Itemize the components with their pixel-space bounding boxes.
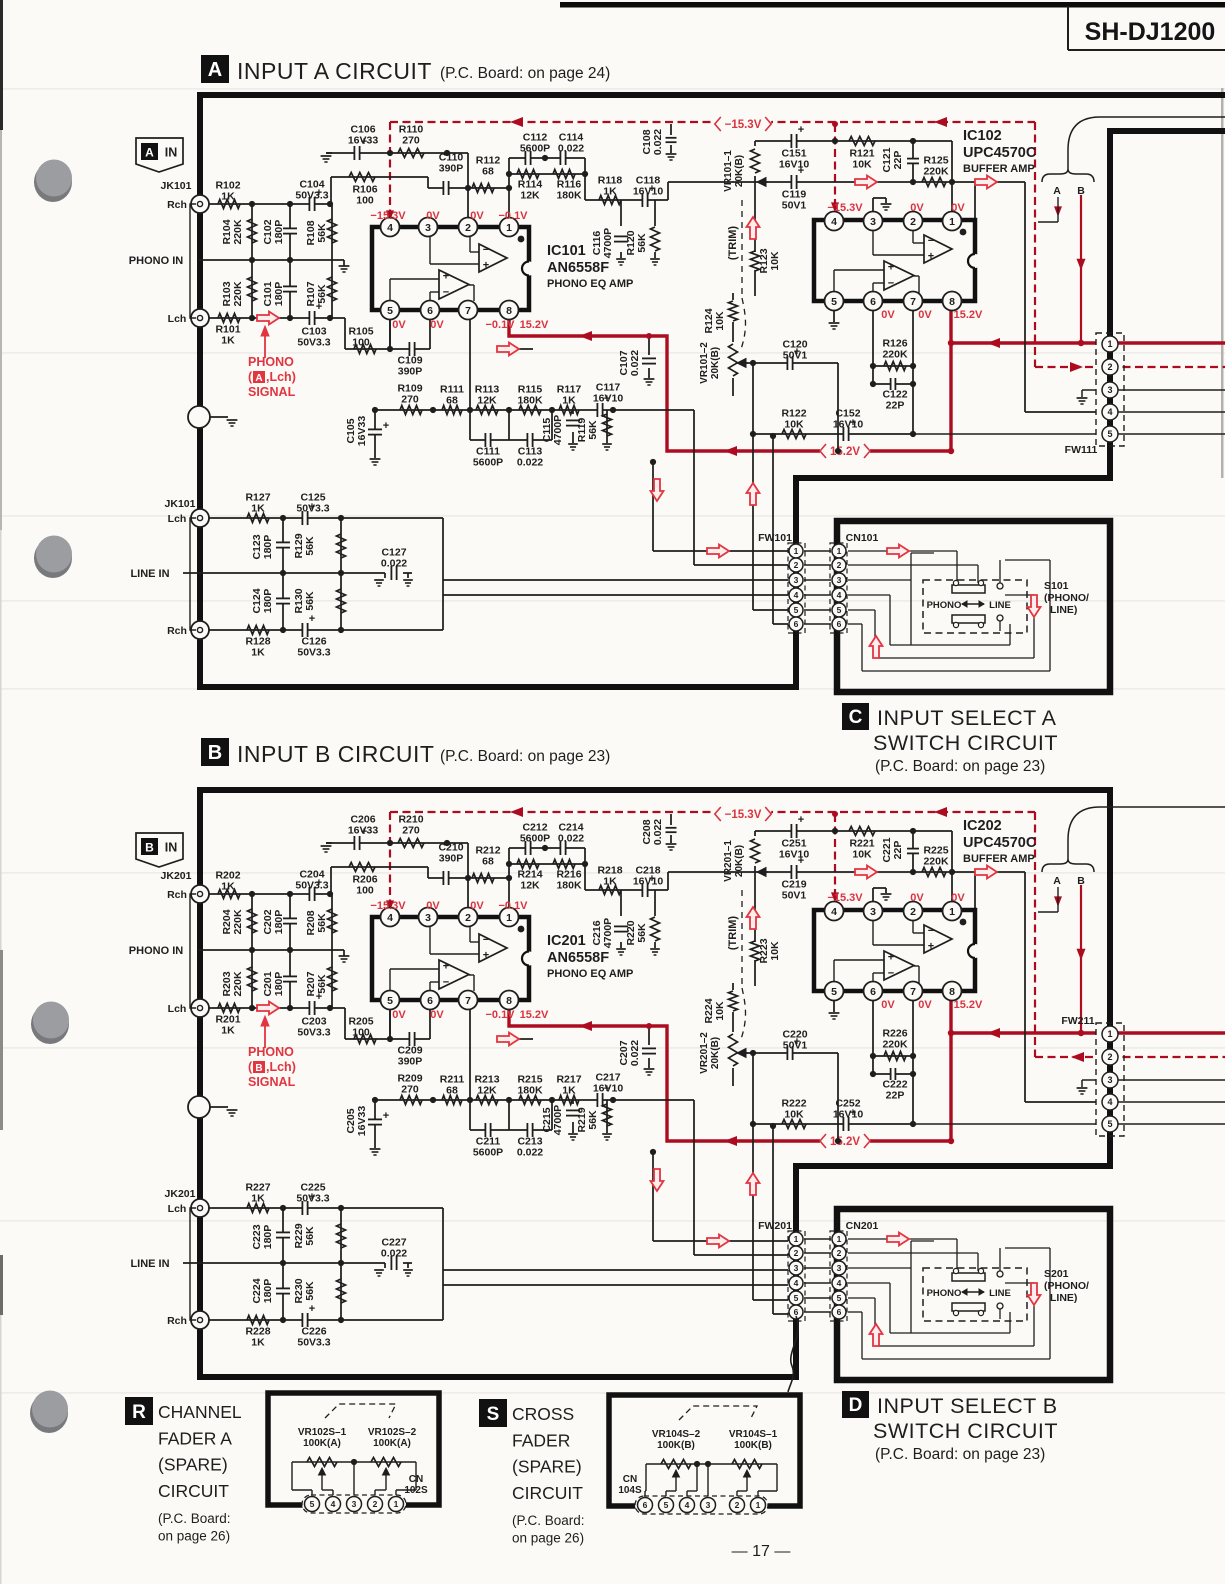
svg-text:VR201–2: VR201–2: [699, 1032, 710, 1074]
svg-text:6: 6: [794, 619, 799, 629]
svg-text:390P: 390P: [398, 366, 423, 378]
svg-text:IC102: IC102: [963, 128, 1002, 144]
svg-text:10K: 10K: [784, 419, 804, 431]
svg-text:102S: 102S: [404, 1485, 428, 1496]
svg-text:VR104S–1: VR104S–1: [729, 1429, 778, 1440]
svg-text:FW211: FW211: [1061, 1015, 1094, 1027]
svg-text:56K: 56K: [304, 1226, 316, 1246]
svg-text:2: 2: [910, 216, 916, 228]
svg-text:68: 68: [482, 166, 494, 178]
svg-text:— 17 —: — 17 —: [732, 1543, 791, 1560]
svg-text:Lch: Lch: [168, 513, 187, 525]
svg-text:4: 4: [794, 590, 799, 600]
svg-text:1K: 1K: [251, 1337, 265, 1349]
svg-text:220K: 220K: [923, 166, 949, 178]
svg-text:LINE): LINE): [1050, 604, 1077, 616]
svg-text:7: 7: [910, 986, 916, 998]
svg-text:16V10: 16V10: [779, 849, 810, 861]
svg-text:−: −: [443, 287, 449, 299]
svg-text:−: −: [888, 278, 894, 290]
svg-text:1: 1: [794, 546, 799, 556]
svg-text:5: 5: [794, 605, 799, 615]
svg-text:SIGNAL: SIGNAL: [248, 385, 296, 399]
svg-text:4: 4: [685, 1500, 690, 1510]
svg-text:+: +: [928, 251, 934, 263]
svg-text:5: 5: [387, 995, 393, 1007]
svg-text:LINE): LINE): [1050, 1292, 1077, 1304]
svg-text:2: 2: [910, 906, 916, 918]
svg-text:CIRCUIT: CIRCUIT: [158, 1481, 229, 1501]
svg-text:5: 5: [837, 1293, 842, 1303]
svg-text:16V10: 16V10: [593, 393, 624, 405]
svg-text:390P: 390P: [439, 853, 464, 865]
svg-text:VR102S–2: VR102S–2: [368, 1427, 417, 1438]
svg-text:2: 2: [465, 222, 471, 234]
svg-text:56K: 56K: [316, 974, 328, 994]
svg-text:6: 6: [870, 296, 876, 308]
svg-text:270: 270: [401, 394, 419, 406]
svg-text:6: 6: [794, 1307, 799, 1317]
svg-text:VR101–1: VR101–1: [723, 150, 734, 192]
svg-text:VR101–2: VR101–2: [699, 342, 710, 384]
svg-text:−15.3V: −15.3V: [725, 119, 762, 131]
svg-text:15.2V: 15.2V: [520, 1009, 549, 1021]
svg-text:1K: 1K: [221, 191, 235, 203]
svg-text:−15.3V: −15.3V: [827, 892, 863, 904]
svg-text:0.022: 0.022: [517, 1147, 543, 1159]
svg-text:6: 6: [643, 1500, 648, 1510]
svg-text:1: 1: [506, 222, 512, 234]
svg-text:CHANNEL: CHANNEL: [158, 1402, 242, 1422]
svg-text:1: 1: [1107, 1029, 1112, 1039]
svg-text:IN: IN: [165, 841, 178, 855]
svg-text:FW201: FW201: [758, 1220, 792, 1232]
svg-text:50V3.3: 50V3.3: [296, 503, 329, 515]
svg-text:270: 270: [401, 1084, 419, 1096]
svg-text:0V: 0V: [470, 900, 484, 912]
svg-text:22P: 22P: [892, 841, 904, 860]
svg-text:8: 8: [949, 296, 955, 308]
svg-text:4: 4: [1107, 407, 1112, 417]
svg-text:S: S: [487, 1404, 500, 1425]
svg-text:50V3.3: 50V3.3: [297, 1337, 330, 1349]
svg-text:−15.3V: −15.3V: [370, 210, 406, 222]
svg-text:1: 1: [949, 906, 955, 918]
svg-text:0V: 0V: [910, 202, 924, 214]
svg-text:FADER A: FADER A: [158, 1428, 232, 1448]
svg-text:50V3.3: 50V3.3: [295, 190, 328, 202]
svg-text:16V33: 16V33: [348, 825, 379, 837]
svg-text:10K: 10K: [714, 1001, 726, 1021]
svg-text:4: 4: [831, 216, 837, 228]
svg-text:16V10: 16V10: [833, 1109, 864, 1121]
svg-text:4: 4: [831, 906, 837, 918]
svg-text:0.022: 0.022: [517, 457, 543, 469]
svg-text:3: 3: [837, 1263, 842, 1273]
svg-text:+: +: [483, 950, 489, 962]
svg-text:PHONO IN: PHONO IN: [129, 945, 183, 957]
svg-text:2: 2: [837, 1248, 842, 1258]
svg-text:6: 6: [837, 619, 842, 629]
svg-text:5600P: 5600P: [520, 833, 550, 845]
svg-text:FADER: FADER: [512, 1430, 570, 1450]
svg-text:220K: 220K: [923, 856, 949, 868]
svg-text:Lch: Lch: [168, 1203, 187, 1215]
svg-text:(P.C. Board: on page 23): (P.C. Board: on page 23): [440, 748, 610, 765]
svg-text:50V1: 50V1: [783, 1040, 808, 1052]
svg-text:5: 5: [837, 605, 842, 615]
svg-text:4700P: 4700P: [602, 228, 614, 258]
svg-text:A: A: [255, 373, 262, 384]
svg-text:50V1: 50V1: [783, 350, 808, 362]
svg-text:R: R: [132, 1402, 146, 1423]
svg-text:180P: 180P: [262, 1225, 274, 1250]
svg-text:100K(B): 100K(B): [657, 1440, 695, 1451]
svg-text:22P: 22P: [886, 1090, 905, 1102]
svg-text:VR201–1: VR201–1: [723, 840, 734, 882]
svg-text:4: 4: [387, 912, 393, 924]
svg-text:5600P: 5600P: [473, 1147, 503, 1159]
svg-text:Rch: Rch: [167, 199, 187, 211]
svg-text:A: A: [145, 146, 154, 160]
svg-text:0V: 0V: [918, 309, 932, 321]
svg-text:−: −: [888, 968, 894, 980]
svg-text:56K: 56K: [304, 536, 316, 556]
svg-text:0V: 0V: [470, 210, 484, 222]
svg-text:−: −: [928, 925, 934, 937]
svg-text:3: 3: [1107, 385, 1112, 395]
svg-text:0.022: 0.022: [558, 833, 584, 845]
svg-text:270: 270: [402, 825, 420, 837]
svg-text:1K: 1K: [251, 647, 265, 659]
svg-text:15.2V: 15.2V: [830, 446, 860, 458]
svg-text:(P.C. Board:: (P.C. Board:: [158, 1511, 231, 1526]
svg-text:4: 4: [331, 1499, 336, 1509]
svg-text:2: 2: [373, 1499, 378, 1509]
svg-text:1K: 1K: [562, 395, 576, 407]
svg-text:1: 1: [949, 216, 955, 228]
svg-text:56K: 56K: [304, 591, 316, 611]
svg-text:16V33: 16V33: [348, 135, 379, 147]
svg-text:IC101: IC101: [547, 243, 586, 259]
svg-text:(P.C. Board:: (P.C. Board:: [512, 1513, 585, 1528]
svg-text:Lch: Lch: [168, 1003, 187, 1015]
svg-text:0V: 0V: [426, 900, 440, 912]
svg-text:−15.3V: −15.3V: [827, 202, 863, 214]
svg-text:C: C: [849, 707, 863, 728]
svg-text:0V: 0V: [881, 999, 895, 1011]
svg-text:CROSS: CROSS: [512, 1404, 574, 1424]
svg-text:1K: 1K: [221, 881, 235, 893]
svg-text:+: +: [443, 270, 449, 282]
svg-text:5: 5: [664, 1500, 669, 1510]
svg-text:8: 8: [949, 986, 955, 998]
svg-text:22P: 22P: [892, 151, 904, 170]
svg-text:3: 3: [794, 575, 799, 585]
svg-text:50V3.3: 50V3.3: [295, 880, 328, 892]
svg-text:180K: 180K: [517, 1085, 543, 1097]
svg-text:+: +: [888, 951, 894, 963]
svg-text:100K(A): 100K(A): [303, 1438, 341, 1449]
svg-text:270: 270: [402, 135, 420, 147]
svg-text:IC202: IC202: [963, 818, 1002, 834]
svg-text:5: 5: [794, 1293, 799, 1303]
svg-text:220K: 220K: [232, 219, 244, 245]
svg-text:Rch: Rch: [167, 889, 187, 901]
svg-text:50V3.3: 50V3.3: [297, 1027, 330, 1039]
svg-text:20K(B): 20K(B): [710, 1037, 721, 1069]
svg-text:7: 7: [465, 995, 471, 1007]
svg-text:(TRIM): (TRIM): [727, 226, 739, 261]
svg-text:(P.C. Board: on page 23): (P.C. Board: on page 23): [875, 758, 1045, 775]
svg-text:AN6558F: AN6558F: [547, 260, 609, 276]
svg-text:15.2V: 15.2V: [520, 319, 549, 331]
svg-text:PHONO: PHONO: [248, 1045, 294, 1059]
svg-text:0.022: 0.022: [558, 143, 584, 155]
svg-text:1K: 1K: [221, 335, 235, 347]
svg-text:0.022: 0.022: [629, 1040, 641, 1066]
svg-text:A: A: [1053, 185, 1061, 197]
svg-text:6: 6: [837, 1307, 842, 1317]
svg-text:2: 2: [1107, 362, 1112, 372]
svg-text:3: 3: [870, 906, 876, 918]
svg-text:50V1: 50V1: [782, 890, 807, 902]
svg-text:4: 4: [794, 1278, 799, 1288]
svg-text:(P.C. Board: on page 24): (P.C. Board: on page 24): [440, 65, 610, 82]
svg-text:180K: 180K: [556, 190, 582, 202]
svg-text:3: 3: [1107, 1075, 1112, 1085]
svg-text:1: 1: [1107, 339, 1112, 349]
svg-text:16V33: 16V33: [356, 1106, 368, 1137]
svg-text:0.022: 0.022: [652, 819, 664, 845]
svg-text:S101: S101: [1044, 580, 1069, 592]
svg-text:12K: 12K: [477, 1085, 497, 1097]
svg-text:0V: 0V: [918, 999, 932, 1011]
svg-text:(TRIM): (TRIM): [727, 916, 739, 951]
svg-text:4700P: 4700P: [552, 415, 564, 445]
svg-text:PHONO EQ AMP: PHONO EQ AMP: [547, 968, 633, 980]
svg-text:2: 2: [735, 1500, 740, 1510]
svg-text:56K: 56K: [636, 233, 648, 253]
svg-text:56K: 56K: [316, 223, 328, 243]
svg-text:68: 68: [446, 1085, 458, 1097]
svg-text:180P: 180P: [262, 589, 274, 614]
svg-text:5600P: 5600P: [520, 143, 550, 155]
svg-text:12K: 12K: [477, 395, 497, 407]
svg-text:−0.1V: −0.1V: [485, 319, 515, 331]
svg-text:B: B: [145, 841, 154, 855]
svg-text:100: 100: [356, 195, 374, 207]
svg-text:CIRCUIT: CIRCUIT: [512, 1483, 583, 1503]
svg-text:8: 8: [506, 995, 512, 1007]
svg-text:4: 4: [1107, 1097, 1112, 1107]
svg-text:JK101: JK101: [161, 180, 192, 192]
svg-text:100: 100: [352, 337, 370, 349]
svg-text:0.022: 0.022: [381, 558, 407, 570]
svg-text:10K: 10K: [852, 849, 872, 861]
svg-text:2: 2: [837, 560, 842, 570]
svg-text:JK201: JK201: [161, 870, 192, 882]
svg-text:2: 2: [794, 1248, 799, 1258]
svg-text:CN101: CN101: [846, 532, 879, 544]
svg-text:180P: 180P: [262, 535, 274, 560]
svg-text:SH-DJ1200: SH-DJ1200: [1085, 18, 1216, 46]
svg-text:0V: 0V: [430, 1009, 444, 1021]
svg-text:4: 4: [837, 590, 842, 600]
svg-text:D: D: [849, 1395, 863, 1416]
svg-text:Rch: Rch: [167, 625, 187, 637]
svg-text:AN6558F: AN6558F: [547, 950, 609, 966]
svg-text:16V33: 16V33: [356, 416, 368, 447]
svg-text:5: 5: [831, 986, 837, 998]
svg-text:180P: 180P: [273, 220, 285, 245]
svg-text:68: 68: [446, 395, 458, 407]
svg-text:−15.3V: −15.3V: [370, 900, 406, 912]
svg-text:1K: 1K: [603, 186, 617, 198]
svg-text:3: 3: [837, 575, 842, 585]
svg-text:7: 7: [465, 305, 471, 317]
svg-text:(PHONO/: (PHONO/: [1044, 592, 1089, 604]
svg-text:0V: 0V: [392, 1009, 406, 1021]
svg-text:0V: 0V: [881, 309, 895, 321]
svg-text:,Lch): ,Lch): [266, 1060, 296, 1074]
svg-text:BUFFER AMP: BUFFER AMP: [963, 853, 1035, 865]
svg-text:1K: 1K: [221, 1025, 235, 1037]
svg-text:B: B: [1077, 875, 1085, 887]
svg-text:220K: 220K: [882, 1039, 908, 1051]
svg-text:2: 2: [1107, 1052, 1112, 1062]
svg-text:+: +: [798, 814, 804, 826]
svg-text:−0.1V: −0.1V: [485, 1009, 515, 1021]
svg-text:56K: 56K: [636, 923, 648, 943]
svg-text:56K: 56K: [316, 284, 328, 304]
svg-text:390P: 390P: [398, 1056, 423, 1068]
svg-text:20K(B): 20K(B): [734, 155, 745, 187]
svg-text:LINE IN: LINE IN: [130, 568, 169, 580]
svg-text:(PHONO/: (PHONO/: [1044, 1280, 1089, 1292]
svg-text:100: 100: [356, 885, 374, 897]
svg-text:(P.C. Board: on page 23): (P.C. Board: on page 23): [875, 1446, 1045, 1463]
svg-text:CN: CN: [409, 1474, 423, 1485]
svg-text:BUFFER AMP: BUFFER AMP: [963, 163, 1035, 175]
svg-text:PHONO IN: PHONO IN: [129, 255, 183, 267]
svg-text:6: 6: [870, 986, 876, 998]
svg-text:UPC4570C: UPC4570C: [963, 145, 1037, 161]
svg-text:0.022: 0.022: [652, 129, 664, 155]
svg-text:+: +: [383, 1110, 389, 1122]
svg-text:SWITCH CIRCUIT: SWITCH CIRCUIT: [873, 731, 1058, 755]
svg-text:100: 100: [352, 1027, 370, 1039]
svg-text:220K: 220K: [882, 349, 908, 361]
svg-text:16V10: 16V10: [633, 876, 664, 888]
svg-text:CN: CN: [623, 1474, 637, 1485]
svg-text:1K: 1K: [562, 1085, 576, 1097]
svg-text:−: −: [443, 977, 449, 989]
svg-text:A: A: [208, 59, 222, 81]
svg-text:1: 1: [394, 1499, 399, 1509]
svg-text:100K(A): 100K(A): [373, 1438, 411, 1449]
svg-text:100K(B): 100K(B): [734, 1440, 772, 1451]
svg-text:+: +: [309, 1303, 315, 1315]
svg-text:3: 3: [870, 216, 876, 228]
svg-text:INPUT SELECT A: INPUT SELECT A: [877, 706, 1057, 730]
svg-text:1: 1: [756, 1500, 761, 1510]
svg-text:0V: 0V: [430, 319, 444, 331]
svg-text:JK101: JK101: [165, 498, 196, 510]
svg-text:CN201: CN201: [846, 1220, 879, 1232]
svg-text:0V: 0V: [951, 202, 965, 214]
svg-text:6: 6: [427, 995, 433, 1007]
svg-text:INPUT SELECT B: INPUT SELECT B: [877, 1394, 1058, 1418]
svg-text:220K: 220K: [232, 909, 244, 935]
svg-text:IN: IN: [165, 146, 178, 160]
svg-text:50V3.3: 50V3.3: [297, 337, 330, 349]
svg-text:15.2V: 15.2V: [954, 999, 983, 1011]
svg-text:10K: 10K: [769, 251, 781, 271]
svg-text:50V1: 50V1: [782, 200, 807, 212]
svg-text:3: 3: [352, 1499, 357, 1509]
svg-text:50V3.3: 50V3.3: [296, 1193, 329, 1205]
svg-text:LINE: LINE: [989, 1288, 1011, 1299]
svg-text:68: 68: [482, 856, 494, 868]
svg-text:+: +: [443, 960, 449, 972]
svg-text:16V10: 16V10: [593, 1083, 624, 1095]
svg-text:5: 5: [1107, 429, 1112, 439]
svg-text:−: −: [483, 934, 489, 946]
svg-text:+: +: [383, 420, 389, 432]
svg-text:0V: 0V: [392, 319, 406, 331]
svg-text:LINE IN: LINE IN: [130, 1258, 169, 1270]
svg-text:6: 6: [427, 305, 433, 317]
svg-text:5: 5: [387, 305, 393, 317]
svg-text:180K: 180K: [517, 395, 543, 407]
svg-text:−0.1V: −0.1V: [498, 900, 528, 912]
svg-text:390P: 390P: [439, 163, 464, 175]
svg-text:+: +: [309, 613, 315, 625]
svg-text:56K: 56K: [587, 1110, 599, 1130]
svg-text:IC201: IC201: [547, 933, 586, 949]
svg-text:+: +: [888, 261, 894, 273]
svg-text:15.2V: 15.2V: [830, 1136, 860, 1148]
svg-text:220K: 220K: [232, 281, 244, 307]
svg-text:20K(B): 20K(B): [734, 845, 745, 877]
svg-text:2: 2: [794, 560, 799, 570]
svg-text:PHONO: PHONO: [927, 1288, 962, 1299]
svg-text:12K: 12K: [520, 190, 540, 202]
svg-text:20K(B): 20K(B): [710, 347, 721, 379]
svg-text:5600P: 5600P: [473, 457, 503, 469]
svg-text:Rch: Rch: [167, 1315, 187, 1327]
svg-text:3: 3: [425, 222, 431, 234]
svg-text:on page 26): on page 26): [512, 1530, 584, 1545]
svg-text:3: 3: [706, 1500, 711, 1510]
svg-text:1K: 1K: [603, 876, 617, 888]
svg-text:180K: 180K: [556, 880, 582, 892]
svg-text:12K: 12K: [520, 880, 540, 892]
svg-text:8: 8: [506, 305, 512, 317]
svg-text:SIGNAL: SIGNAL: [248, 1075, 296, 1089]
svg-text:(SPARE): (SPARE): [158, 1455, 228, 1475]
svg-text:INPUT B CIRCUIT: INPUT B CIRCUIT: [237, 741, 434, 767]
svg-text:10K: 10K: [714, 311, 726, 331]
svg-text:JK201: JK201: [165, 1188, 196, 1200]
svg-text:B: B: [1077, 185, 1085, 197]
svg-text:56K: 56K: [587, 420, 599, 440]
svg-text:LINE: LINE: [989, 600, 1011, 611]
svg-text:−: −: [928, 235, 934, 247]
svg-text:SWITCH CIRCUIT: SWITCH CIRCUIT: [873, 1419, 1058, 1443]
svg-text:−15.3V: −15.3V: [725, 809, 762, 821]
